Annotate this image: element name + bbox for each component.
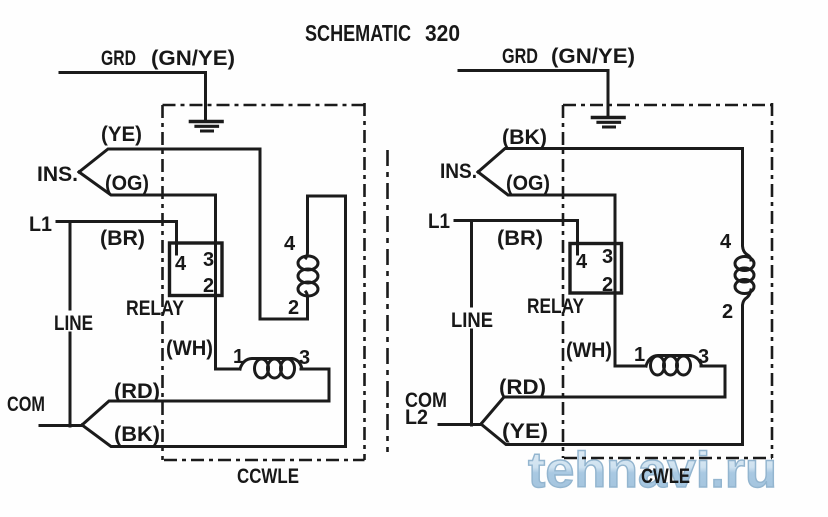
label (BR) left: [100, 226, 145, 250]
label CWLE: [641, 464, 690, 488]
relay pin 3 label right: [602, 246, 613, 268]
svg-text:(OG): (OG): [105, 171, 149, 195]
svg-text:4: 4: [175, 253, 187, 275]
wire (BK): INS fork upper arm right: [478, 149, 743, 173]
label (OG): [105, 171, 149, 195]
relay pin 3 label: [203, 249, 214, 271]
svg-text:RELAY: RELAY: [126, 296, 184, 320]
wire GRD left: [60, 73, 206, 121]
svg-text:(OG): (OG): [506, 171, 550, 195]
label LINE left: [54, 311, 93, 335]
svg-text:SCHEMATIC: SCHEMATIC: [305, 20, 411, 46]
svg-text:LINE: LINE: [54, 311, 93, 335]
svg-text:(WH): (WH): [566, 338, 612, 362]
svg-text:(BK): (BK): [502, 125, 547, 149]
label (BK) left: [114, 422, 160, 446]
svg-text:1: 1: [634, 344, 645, 366]
svg-text:L2: L2: [405, 405, 428, 429]
start winding pin 4 label: [284, 233, 296, 255]
wire L1 left: [57, 222, 177, 255]
start winding coil left (pins 4-2): [298, 196, 346, 446]
svg-text:320: 320: [425, 20, 460, 46]
start winding pin 2 label right: [722, 301, 733, 323]
stray fold line (dash-dot) between circuits: [386, 150, 389, 452]
label (BR) right: [497, 226, 543, 250]
label CCWLE: [237, 464, 299, 488]
start winding coil right (pins 4-2): [735, 149, 754, 445]
run winding coil left (pins 1-3): [240, 359, 302, 379]
svg-text:INS.: INS.: [37, 162, 78, 186]
run winding coil right (pins 1-3): [646, 356, 701, 376]
svg-text:(WH): (WH): [166, 336, 213, 360]
run winding pin 3 label: [299, 347, 310, 369]
wire (OG): INS fork lower arm: [79, 172, 216, 195]
svg-text:(RD): (RD): [114, 379, 160, 403]
svg-text:2: 2: [722, 301, 733, 323]
svg-text:2: 2: [602, 274, 613, 296]
label L2 right: [405, 405, 428, 429]
svg-text:(BR): (BR): [497, 226, 543, 250]
wire (RD) right: [481, 397, 725, 424]
relay pin 2 label: [203, 275, 214, 297]
label (WH) left: [166, 336, 213, 360]
wire (BK) left: [82, 425, 346, 447]
svg-text:INS.: INS.: [440, 159, 477, 183]
wire L1 right: [455, 221, 578, 255]
wire LINE vertical right: [470, 221, 473, 307]
ground left: [191, 122, 223, 132]
wire (YE) drop to start winding pin 2: [260, 149, 308, 319]
svg-text:(BR): (BR): [100, 226, 145, 250]
label L1 right: [428, 209, 450, 233]
wire (WH) relay pin2 to run winding pin 1: [216, 368, 241, 371]
watermark tehnavi.ru: [528, 442, 777, 498]
relay pin 4 label: [175, 253, 187, 275]
wire (RD) left: [82, 401, 329, 425]
wire (OG) through relay to run winding, pin 3 to pin 2: [214, 195, 217, 369]
label (RD) left: [114, 379, 160, 403]
label RELAY right: [527, 294, 584, 318]
wire (WH) right: [615, 365, 646, 368]
svg-text:(GN/YE): (GN/YE): [151, 46, 235, 70]
svg-text:2: 2: [288, 297, 299, 319]
svg-text:(GN/YE): (GN/YE): [551, 44, 635, 68]
label (YE): [101, 122, 142, 146]
label (OG) right: [506, 171, 550, 195]
svg-text:3: 3: [299, 347, 310, 369]
label (YE) right: [502, 419, 548, 443]
enclosure box CCWLE (dash-dot): [163, 103, 365, 460]
label GRD (GN/YE) right: [502, 44, 635, 68]
wire (OG) through relay right, pin 3 to pin 2: [614, 195, 617, 366]
wire LINE vertical left: [69, 222, 72, 310]
wire run winding pin3 down to (RD): [301, 369, 329, 401]
wire GRD right: [459, 71, 608, 117]
svg-text:1: 1: [233, 346, 244, 368]
relay K2 right: [570, 244, 622, 294]
label LINE right: [451, 308, 493, 332]
svg-text:COM: COM: [7, 392, 45, 416]
svg-text:GRD: GRD: [502, 44, 538, 68]
run winding pin 1 label right: [634, 344, 645, 366]
wire run winding pin3 down to (RD) right: [701, 366, 725, 397]
wire (OG): INS fork lower arm right: [478, 172, 615, 195]
svg-text:4: 4: [576, 251, 588, 273]
ground right: [593, 118, 625, 128]
label INS. left: [37, 162, 78, 186]
svg-text:(YE): (YE): [101, 122, 142, 146]
wire COM L2 stub right: [439, 423, 481, 426]
title SCHEMATIC 320: [305, 20, 460, 46]
svg-text:4: 4: [720, 231, 732, 253]
run winding pin 3 label right: [698, 346, 709, 368]
label (RD) right: [499, 375, 546, 399]
label (BK) right: [502, 125, 547, 149]
svg-text:RELAY: RELAY: [527, 294, 584, 318]
svg-text:(RD): (RD): [499, 375, 546, 399]
label COM right: [405, 388, 447, 412]
run winding pin 1 label: [233, 346, 244, 368]
svg-text:LINE: LINE: [451, 308, 493, 332]
svg-text:(YE): (YE): [502, 419, 548, 443]
svg-text:4: 4: [284, 233, 296, 255]
relay pin 2 label right: [602, 274, 613, 296]
label INS. right: [440, 159, 477, 183]
svg-text:2: 2: [203, 275, 214, 297]
svg-text:(BK): (BK): [114, 422, 160, 446]
svg-text:L1: L1: [428, 209, 450, 233]
wire COM stub left: [40, 424, 82, 427]
svg-text:L1: L1: [29, 212, 52, 236]
wire (YE) right: [481, 424, 743, 445]
svg-text:GRD: GRD: [101, 46, 136, 70]
label COM left: [7, 392, 45, 416]
relay K1 left: [170, 243, 223, 296]
label L1 left: [29, 212, 52, 236]
label RELAY left: [126, 296, 184, 320]
svg-text:CWLE: CWLE: [641, 464, 690, 488]
wire (YE): INS fork upper arm: [79, 149, 260, 172]
start winding pin 2 label: [288, 297, 299, 319]
relay pin 4 label right: [576, 251, 588, 273]
label GRD (GN/YE) left: [101, 46, 235, 70]
enclosure box CWLE (dash-dot): [563, 103, 772, 458]
svg-text:3: 3: [203, 249, 214, 271]
start winding pin 4 label right: [720, 231, 732, 253]
svg-text:CCWLE: CCWLE: [237, 464, 299, 488]
label (WH) right: [566, 338, 612, 362]
svg-text:3: 3: [602, 246, 613, 268]
